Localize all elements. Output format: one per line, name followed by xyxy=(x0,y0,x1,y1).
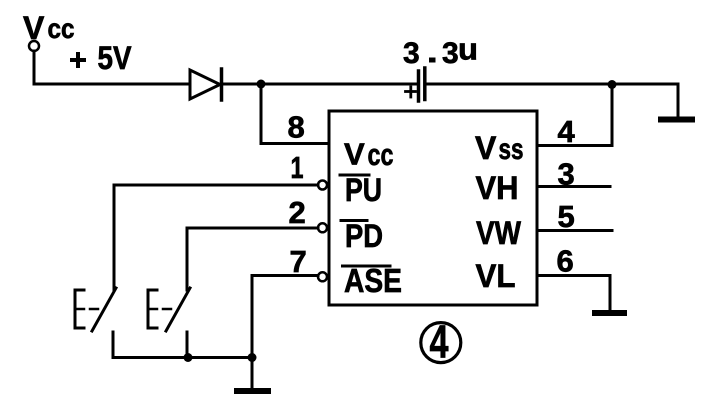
svg-text:VW: VW xyxy=(476,215,522,251)
svg-text:8: 8 xyxy=(288,110,305,145)
switch S1 (push-button) xyxy=(75,288,116,358)
wire pin 7 down to bottom rail xyxy=(252,276,318,358)
wire pin 5 stub xyxy=(537,229,612,232)
junction node B (dot) xyxy=(608,80,617,89)
svg-text:ss: ss xyxy=(499,133,524,166)
svg-text:7: 7 xyxy=(290,244,307,279)
wire pin 1 to switch S1 xyxy=(114,185,318,290)
wire pin 3 stub xyxy=(537,185,610,188)
wire pin 6 to ground xyxy=(537,276,610,311)
capacitor C1 3.3u xyxy=(406,68,425,101)
svg-text:4: 4 xyxy=(558,114,576,149)
junction dot at S2 / rail xyxy=(184,353,193,362)
svg-text:V: V xyxy=(475,130,497,166)
wire junction A down to pin 8 xyxy=(261,84,329,144)
IC U1 (E²POT chip body) xyxy=(329,111,537,305)
svg-text:cc: cc xyxy=(368,137,394,172)
svg-text:2: 2 xyxy=(289,195,306,230)
value label 3.3u xyxy=(403,32,478,71)
wire diode cathode to capacitor left plate xyxy=(222,83,416,86)
junction dot at pin7 / rail xyxy=(248,353,257,362)
wire junction B down to pin 4 xyxy=(537,85,612,146)
switch S2 (push-button) xyxy=(148,288,190,358)
svg-text:5V: 5V xyxy=(98,40,133,76)
svg-text:VL: VL xyxy=(476,258,516,294)
svg-text:6: 6 xyxy=(557,244,574,279)
svg-text:3: 3 xyxy=(442,37,459,70)
wire bottom rail xyxy=(113,356,252,359)
node Vcc terminal circle xyxy=(29,41,39,51)
svg-text:cc: cc xyxy=(48,13,75,44)
ground G1 top right xyxy=(661,84,692,120)
pin label Vss (inside, pin 4) xyxy=(475,130,524,166)
ground G2 bottom xyxy=(237,358,268,392)
schematic number circled 4 xyxy=(421,323,461,363)
svg-text:3: 3 xyxy=(403,37,420,70)
pin 1 bubble xyxy=(318,181,327,190)
wire pin 2 to switch S2 xyxy=(187,228,318,290)
svg-text:4: 4 xyxy=(430,316,449,368)
node Vcc terminal label xyxy=(23,10,75,46)
pin 7 bubble xyxy=(318,272,327,281)
diode D1 xyxy=(190,69,222,100)
svg-text:VH: VH xyxy=(476,170,519,206)
value label +5V xyxy=(70,52,86,68)
svg-text:PU: PU xyxy=(345,172,382,208)
pin 2 bubble xyxy=(318,223,327,232)
svg-text:5: 5 xyxy=(558,199,575,234)
wire from Vcc terminal down and right to diode anode xyxy=(34,51,190,84)
pin label Vcc (inside, pin 8) xyxy=(344,137,394,173)
ground G3 at pin 6 xyxy=(595,310,624,316)
junction node A (dot) xyxy=(257,80,266,89)
svg-text:1: 1 xyxy=(291,150,304,185)
svg-text:u: u xyxy=(458,32,478,67)
svg-text:PD: PD xyxy=(345,218,383,254)
svg-text:V: V xyxy=(344,137,365,172)
wire capacitor right plate to top-right ground xyxy=(426,83,678,86)
svg-text:ASE: ASE xyxy=(344,262,402,299)
